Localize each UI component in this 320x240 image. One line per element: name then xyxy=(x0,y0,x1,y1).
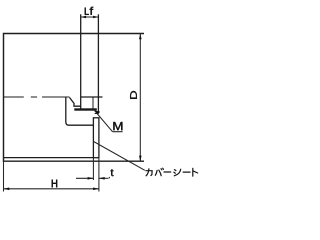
screw shank left xyxy=(80,14,82,110)
katakana ka xyxy=(146,169,152,176)
D arrow top xyxy=(139,34,142,40)
katakana long bar 2 xyxy=(183,171,190,173)
post bottom xyxy=(95,113,99,115)
t arrow left xyxy=(88,177,94,180)
t hook xyxy=(108,177,110,178)
D dimension line xyxy=(139,34,141,162)
katakana long bar 1 xyxy=(164,171,171,173)
t extension right xyxy=(98,158,100,192)
M leader arrow xyxy=(94,111,100,115)
Lf arrow right xyxy=(93,16,98,19)
H arrow right xyxy=(93,188,99,191)
t dimension right shaft xyxy=(99,177,109,179)
katakana ba xyxy=(155,168,163,176)
H arrow left xyxy=(4,188,10,191)
t arrow right xyxy=(99,177,105,180)
notch right edge xyxy=(92,97,94,109)
step line xyxy=(4,157,94,159)
screw top face xyxy=(81,96,103,98)
D arrow bottom xyxy=(139,156,142,162)
H extension left xyxy=(3,161,5,191)
Lf arrow left xyxy=(81,16,86,19)
D label xyxy=(130,91,137,99)
t extension left xyxy=(92,158,94,180)
notch outer profile xyxy=(66,97,94,125)
M label xyxy=(113,122,122,130)
cover sheet leader xyxy=(94,142,145,171)
H label xyxy=(52,180,57,187)
center line xyxy=(4,96,70,98)
cover sheet xyxy=(93,118,99,158)
katakana to xyxy=(193,168,198,176)
Lf dimension line xyxy=(81,16,99,18)
M leader line xyxy=(95,111,123,132)
t label xyxy=(111,169,114,176)
Lf label xyxy=(85,7,93,15)
katakana shi xyxy=(174,169,181,176)
body outline xyxy=(4,34,145,162)
t dimension left shaft xyxy=(76,177,93,179)
notch chamfer xyxy=(70,98,81,107)
screw pad thick band xyxy=(74,108,97,110)
H dimension line xyxy=(4,188,99,190)
screw shank right xyxy=(97,14,99,113)
cover sheet katakana label xyxy=(146,168,198,176)
